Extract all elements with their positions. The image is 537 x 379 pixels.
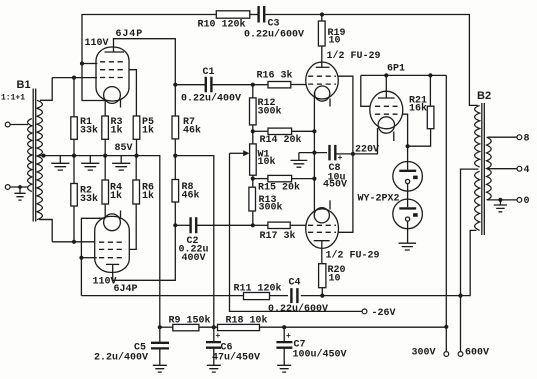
svg-text:1k: 1k	[110, 190, 122, 202]
svg-text:8: 8	[524, 134, 530, 145]
svg-text:1/2 FU-29: 1/2 FU-29	[326, 250, 380, 262]
svg-text:C4: C4	[289, 278, 301, 289]
svg-text:R15 20k: R15 20k	[258, 182, 300, 194]
svg-text:0.22u/600V: 0.22u/600V	[244, 29, 304, 41]
svg-text:400V: 400V	[182, 253, 206, 264]
svg-text:300k: 300k	[259, 202, 283, 214]
svg-text:46k: 46k	[183, 125, 201, 137]
svg-text:600V: 600V	[465, 348, 489, 359]
svg-text:300k: 300k	[258, 106, 282, 118]
svg-text:16k: 16k	[409, 103, 427, 115]
svg-text:10k: 10k	[258, 156, 276, 168]
svg-text:R18 10k: R18 10k	[226, 315, 268, 327]
svg-text:2.2u/400V: 2.2u/400V	[94, 352, 148, 364]
svg-text:R17 3k: R17 3k	[260, 230, 296, 242]
svg-text:450V: 450V	[323, 180, 347, 191]
svg-text:0.22u/600V: 0.22u/600V	[268, 303, 328, 315]
svg-text:4: 4	[524, 165, 530, 176]
svg-text:1k: 1k	[111, 125, 123, 137]
svg-text:100u/450V: 100u/450V	[293, 349, 347, 361]
svg-text:33k: 33k	[80, 125, 98, 137]
svg-text:1/2 FU-29: 1/2 FU-29	[327, 50, 381, 62]
svg-text:110V: 110V	[85, 38, 109, 49]
svg-text:6J4P: 6J4P	[116, 29, 144, 40]
svg-text:R9 150k: R9 150k	[169, 315, 211, 327]
svg-text:6P1: 6P1	[387, 64, 405, 75]
svg-text:B2: B2	[477, 90, 491, 102]
svg-text:C3: C3	[268, 19, 280, 30]
svg-text:B1: B1	[17, 79, 31, 91]
svg-text:10: 10	[329, 36, 341, 47]
svg-text:1k: 1k	[142, 190, 154, 202]
svg-text:-26V: -26V	[372, 308, 396, 319]
svg-text:0: 0	[524, 196, 530, 207]
svg-text:WY-2PX2: WY-2PX2	[358, 194, 400, 205]
svg-text:+: +	[286, 332, 291, 341]
svg-text:C1: C1	[203, 67, 215, 78]
svg-text:47u/450V: 47u/450V	[212, 352, 260, 364]
svg-text:1:1+1: 1:1+1	[1, 94, 25, 103]
svg-text:1k: 1k	[142, 125, 154, 137]
svg-text:R16 3k: R16 3k	[257, 70, 293, 82]
svg-text:R14 20k: R14 20k	[260, 134, 302, 146]
svg-text:6J4P: 6J4P	[114, 284, 138, 295]
svg-text:0.22u/400V: 0.22u/400V	[181, 93, 241, 105]
svg-text:33k: 33k	[80, 193, 98, 205]
svg-text:R11 120k: R11 120k	[234, 283, 282, 295]
svg-text:10: 10	[329, 274, 341, 285]
svg-text:R10 120k: R10 120k	[198, 19, 246, 31]
svg-text:46k: 46k	[182, 190, 200, 202]
svg-text:85V: 85V	[115, 143, 133, 154]
svg-text:300V: 300V	[412, 348, 436, 359]
svg-text:+: +	[216, 332, 221, 341]
svg-text:220V: 220V	[355, 145, 379, 156]
svg-text:+: +	[338, 154, 343, 163]
